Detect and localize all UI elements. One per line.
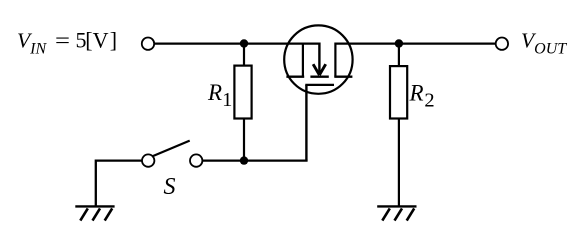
wire: bottom node row from switch right contact to gate lead: [203, 159, 308, 161]
junction node R1 bottom / gate: [240, 156, 248, 164]
wire: top rail from Vin terminal to transistor (drain side): [154, 42, 319, 44]
input terminal Vin: [142, 38, 154, 50]
junction node R2 top: [395, 39, 403, 47]
transistor M1 body circle: [284, 25, 352, 93]
junction node R1 top: [240, 39, 248, 47]
ground left: [75, 206, 114, 220]
resistor R1 bottom lead: [243, 119, 245, 161]
wire: gate lead down to bottom node: [305, 85, 307, 161]
resistor R2 top lead: [398, 44, 400, 67]
svg-text:VIN=5[V]: VIN=5[V]: [17, 28, 117, 58]
transistor M1 substrate arrow shaft: [318, 43, 320, 75]
wire: left ground up and over to switch left contact: [96, 161, 142, 207]
svg-text:R1: R1: [207, 80, 232, 111]
switch S right contact: [190, 154, 202, 166]
transistor M1 channel segment right: [334, 75, 352, 77]
svg-text:R2: R2: [409, 80, 435, 111]
transistor M1 source lead and top rail to Vout terminal: [335, 44, 495, 77]
resistor R1 top lead: [243, 44, 245, 66]
ground right: [377, 206, 416, 220]
switch S lever arm: [153, 141, 190, 157]
transistor M1 gate bar: [305, 84, 334, 86]
resistor R2 bottom lead: [398, 119, 400, 207]
svg-text:S: S: [164, 174, 176, 200]
resistor R2 body: [390, 66, 407, 118]
transistor M1 channel segment middle: [310, 75, 328, 77]
svg-text:VOUT: VOUT: [521, 29, 567, 58]
transistor M1 substrate arrow head: [313, 64, 326, 75]
transistor M1 channel segment left: [286, 75, 304, 77]
output terminal Vout: [496, 38, 508, 50]
transistor M1 drain lead: [302, 44, 304, 77]
switch S left contact: [142, 154, 154, 166]
resistor R1 body: [234, 66, 251, 119]
